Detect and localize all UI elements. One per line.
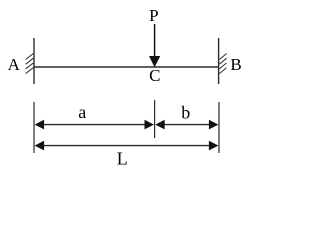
svg-text:C: C — [149, 66, 160, 85]
svg-text:A: A — [8, 55, 21, 74]
svg-text:P: P — [149, 6, 158, 25]
svg-text:a: a — [78, 102, 86, 122]
svg-text:B: B — [230, 55, 241, 74]
svg-text:L: L — [117, 148, 128, 168]
svg-text:b: b — [181, 103, 190, 123]
